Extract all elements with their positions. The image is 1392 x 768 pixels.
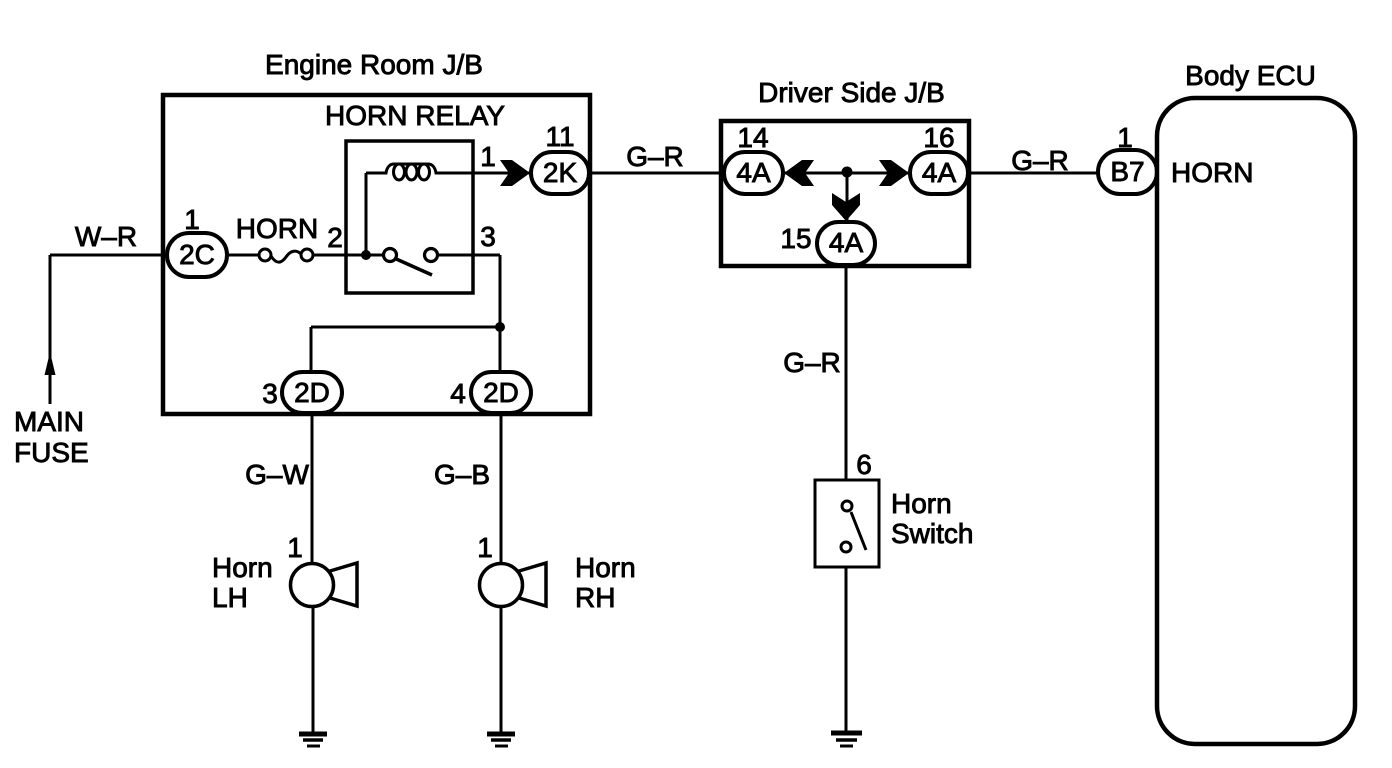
svg-text:Horn: Horn	[575, 552, 636, 583]
svg-text:2D: 2D	[294, 377, 330, 408]
wire between arrows	[783, 172, 910, 175]
svg-text:B7: B7	[1110, 156, 1144, 187]
svg-text:4: 4	[450, 378, 466, 409]
wire G-R (2K to Driver Side J/B)	[589, 172, 723, 175]
svg-text:Switch: Switch	[891, 518, 973, 549]
svg-text:1: 1	[480, 141, 496, 172]
svg-text:Horn: Horn	[212, 552, 273, 583]
junction dot (relay pin 2 node)	[361, 250, 371, 260]
wire horn RH to ground	[500, 606, 503, 734]
arrow from main fuse (up)	[45, 352, 56, 375]
svg-text:2D: 2D	[483, 377, 519, 408]
wire horn switch to ground	[845, 567, 848, 733]
svg-text:HORN RELAY: HORN RELAY	[325, 100, 505, 131]
fuse HORN	[259, 249, 271, 261]
arrow into 2K (right)	[500, 160, 530, 186]
ground (horn switch)	[831, 731, 862, 736]
svg-text:Driver Side J/B: Driver Side J/B	[758, 77, 945, 108]
svg-text:3: 3	[262, 378, 278, 409]
ground (horn LH)	[299, 732, 327, 737]
svg-text:LH: LH	[212, 582, 248, 613]
relay HORN RELAY box	[346, 141, 473, 293]
svg-text:3: 3	[480, 221, 496, 252]
wire relay pin 3 down	[499, 255, 502, 374]
wire G-R (4A15 to horn switch)	[845, 265, 848, 480]
svg-text:6: 6	[856, 449, 872, 480]
svg-text:MAIN: MAIN	[14, 406, 84, 437]
wire horn LH to ground	[312, 606, 315, 734]
ground (horn RH)	[487, 732, 515, 737]
wire coil to junction	[365, 173, 368, 255]
svg-text:G–R: G–R	[783, 347, 841, 378]
connector 4A pin 16	[910, 152, 968, 194]
svg-text:14: 14	[737, 122, 768, 153]
svg-text:HORN: HORN	[1171, 157, 1253, 188]
connector 2D pin 3	[282, 372, 342, 413]
relay coil	[366, 164, 473, 173]
wire relay switch to pin 3	[437, 254, 500, 257]
junction dot (driver side node)	[842, 167, 853, 178]
arrow into 4A15 (down)	[832, 193, 860, 221]
svg-text:2: 2	[327, 222, 343, 253]
horn switch contact bottom	[841, 542, 851, 552]
svg-text:RH: RH	[575, 582, 615, 613]
horn switch blade	[851, 512, 866, 550]
svg-text:15: 15	[780, 223, 811, 254]
horn switch contact top	[842, 501, 852, 511]
connector 2C	[167, 233, 227, 277]
svg-text:4A: 4A	[829, 227, 864, 258]
wire G-R (4A16 to B7)	[968, 172, 1098, 175]
svg-text:G–W: G–W	[245, 459, 309, 490]
svg-text:Horn: Horn	[891, 488, 952, 519]
junction dot (pin 3 node)	[495, 322, 505, 332]
svg-text:11: 11	[545, 121, 574, 152]
svg-text:Engine Room J/B: Engine Room J/B	[265, 49, 483, 80]
svg-text:FUSE: FUSE	[14, 437, 89, 468]
svg-text:G–R: G–R	[626, 141, 684, 172]
wire G-B (2D4 to horn RH)	[500, 412, 503, 564]
svg-text:2C: 2C	[179, 239, 215, 270]
wire G-W (2D3 to horn LH)	[311, 412, 314, 564]
svg-text:1: 1	[184, 204, 200, 235]
svg-text:G–R: G–R	[1011, 145, 1069, 176]
svg-text:4A: 4A	[736, 157, 771, 188]
svg-text:1: 1	[287, 532, 303, 563]
wire node to 4A15	[846, 172, 849, 222]
relay switch contact (pin 3 side)	[425, 249, 438, 262]
junction block Driver Side J/B	[721, 121, 969, 266]
arrow into 4A16 (right)	[879, 160, 909, 186]
connector 4A pin 14	[724, 152, 783, 194]
svg-text:Body ECU: Body ECU	[1185, 60, 1316, 91]
wire fuse to relay pin 2	[313, 254, 387, 257]
connector 4A pin 15	[817, 222, 875, 265]
svg-text:2K: 2K	[543, 157, 578, 188]
arrow into 4A14 (left)	[784, 160, 814, 186]
svg-text:W–R: W–R	[75, 221, 137, 252]
junction block Engine Room J/B	[163, 95, 590, 414]
svg-text:1: 1	[477, 532, 493, 563]
connector 2D pin 4	[471, 372, 531, 413]
connector B7	[1098, 150, 1157, 194]
svg-text:16: 16	[923, 122, 954, 153]
wire 2C to fuse	[227, 254, 259, 257]
relay switch contact (pin 2 side)	[384, 249, 397, 262]
svg-text:G–B: G–B	[434, 459, 490, 490]
relay switch blade	[394, 258, 432, 275]
wire branch to 2D pin 3	[311, 326, 500, 329]
wire relay pin 1 to connector 2K	[473, 172, 531, 175]
horn LH	[330, 563, 357, 606]
wire W-R feed	[50, 254, 167, 257]
horn RH	[519, 563, 546, 606]
connector 2K	[531, 152, 589, 194]
svg-text:4A: 4A	[922, 157, 957, 188]
svg-text:1: 1	[1117, 122, 1133, 153]
svg-text:HORN: HORN	[236, 213, 318, 244]
ECU Body ECU box	[1157, 98, 1355, 744]
switch Horn Switch box	[815, 480, 879, 567]
wire main fuse feed	[49, 255, 52, 404]
